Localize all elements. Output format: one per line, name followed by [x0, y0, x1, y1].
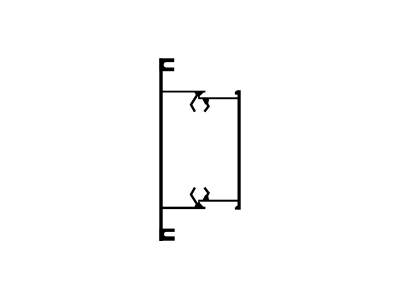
- bottom claw base trapezoid: [194, 203, 205, 209]
- top claw right leg: [204, 103, 208, 112]
- top web right segment: [198, 97, 238, 99]
- bottom step bridge: [198, 202, 200, 204]
- F hook slot (white): [164, 62, 178, 67]
- right wall: [238, 90, 241, 210]
- F hook top-left block: [159, 58, 174, 71]
- E hook bottom-left block: [159, 229, 174, 241]
- top web left segment: [162, 91, 205, 93]
- bottom web left segment: [162, 207, 205, 209]
- bottom claw right leg: [204, 188, 208, 197]
- bottom claw left leg: [191, 188, 197, 204]
- top claw left leg: [191, 95, 197, 111]
- bottom web right segment: [198, 200, 238, 202]
- top right claw mount trapezoid: [202, 99, 209, 105]
- top claw base trapezoid: [194, 91, 205, 96]
- bottom right claw mount trapezoid: [202, 195, 209, 201]
- top step bridge: [198, 96, 200, 98]
- E hook slot (white): [164, 232, 178, 237]
- left wall: [159, 58, 162, 241]
- right wall bottom lip: [235, 206, 238, 210]
- right wall top lip: [235, 90, 238, 94]
